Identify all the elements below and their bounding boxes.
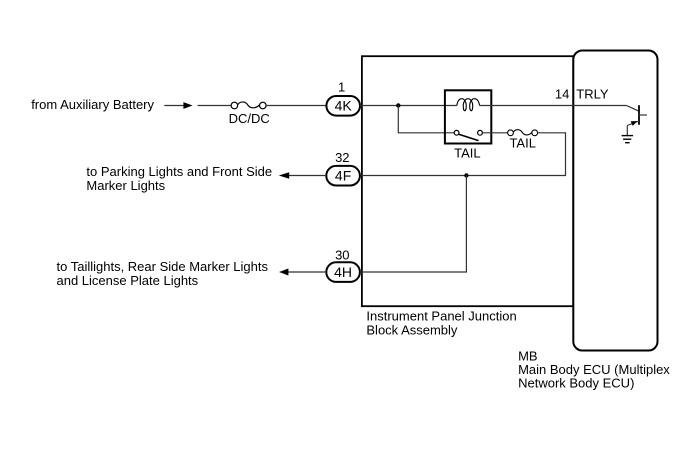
svg-text:4K: 4K (335, 98, 353, 114)
wire: 4K to relay coil (360, 105, 457, 107)
wire: switch to fuse TAIL (482, 132, 507, 134)
wire: branch down to relay switch (398, 106, 454, 133)
arrowhead left 4F (279, 172, 289, 179)
node: junction on 4F row (464, 173, 468, 177)
wire: coil to ECU pin TRLY (480, 105, 627, 107)
svg-text:TRLY: TRLY (576, 87, 609, 102)
wire: 4F to parking lights arrow (288, 175, 326, 177)
ground (622, 136, 633, 143)
svg-text:4H: 4H (334, 264, 352, 280)
wire: branch down to 4H row (361, 176, 467, 273)
svg-text:1: 1 (338, 79, 345, 94)
svg-text:TAIL: TAIL (454, 145, 481, 160)
svg-text:4F: 4F (335, 168, 351, 184)
svg-text:32: 32 (335, 150, 349, 165)
svg-text:to Taillights, Rear Side Marke: to Taillights, Rear Side Marker Lights (57, 259, 269, 274)
svg-text:30: 30 (335, 247, 349, 262)
wire: battery feed after arrowhead (198, 105, 232, 107)
transistor Q1 collector lead (627, 106, 640, 112)
svg-text:Instrument Panel Junction: Instrument Panel Junction (366, 308, 516, 323)
fuse TAIL (508, 130, 538, 136)
wire: emitter to ground (626, 126, 628, 136)
wire: 4H to taillights arrow (287, 271, 326, 273)
arrowhead right on battery feed (183, 102, 192, 109)
relay coil (457, 99, 480, 111)
wire: battery feed into DC/DC (164, 105, 183, 107)
relay switch contacts (454, 130, 459, 135)
box: Instrument Panel Junction Block Assembly (362, 56, 573, 306)
svg-text:to Parking Lights and Front Si: to Parking Lights and Front Side (86, 164, 272, 179)
wire: fuse down to 4F row (360, 133, 566, 176)
svg-text:Block Assembly: Block Assembly (366, 322, 458, 337)
svg-text:and License Plate Lights: and License Plate Lights (57, 273, 199, 288)
svg-text:Marker Lights: Marker Lights (86, 178, 165, 193)
svg-text:14: 14 (555, 87, 569, 102)
wire: DC/DC to connector 4K (266, 105, 326, 107)
relay TAIL box (445, 90, 491, 143)
fusible link DC/DC (231, 102, 266, 109)
arrowhead left 4H (279, 269, 288, 276)
svg-text:TAIL: TAIL (509, 136, 536, 151)
node: junction on main feed (396, 103, 400, 107)
svg-text:DC/DC: DC/DC (229, 111, 270, 126)
transistor Q1 emitter lead (627, 121, 639, 126)
box: Main Body ECU U1 (rounded) (573, 51, 657, 351)
connector 4F (326, 166, 360, 186)
connector 4H (326, 262, 360, 282)
transistor Q1 emitter arrowhead (631, 121, 638, 126)
transistor Q1 bar (638, 105, 640, 125)
svg-text:from Auxiliary Battery: from Auxiliary Battery (31, 97, 154, 112)
transistor Q1 base stub (639, 114, 647, 116)
svg-text:Network Body ECU): Network Body ECU) (518, 375, 634, 390)
connector 4K (326, 96, 360, 116)
relay switch blade (459, 134, 479, 140)
